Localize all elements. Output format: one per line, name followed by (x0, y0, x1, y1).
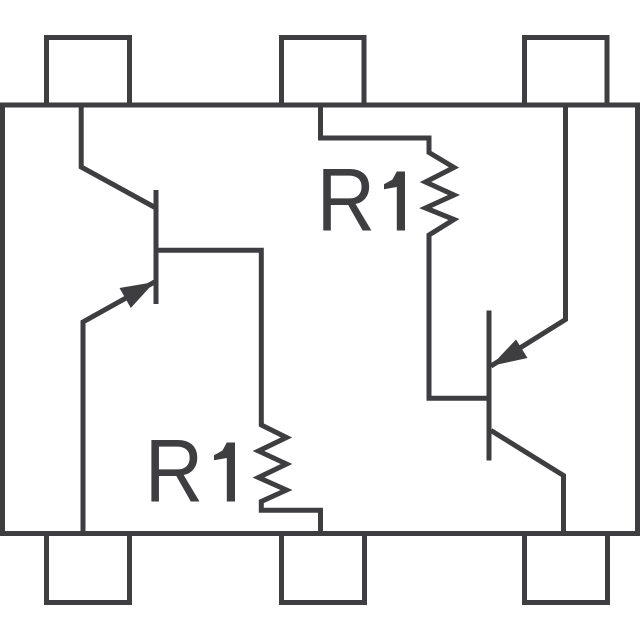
svg-text:R: R (145, 421, 204, 521)
svg-text:R: R (317, 150, 376, 250)
